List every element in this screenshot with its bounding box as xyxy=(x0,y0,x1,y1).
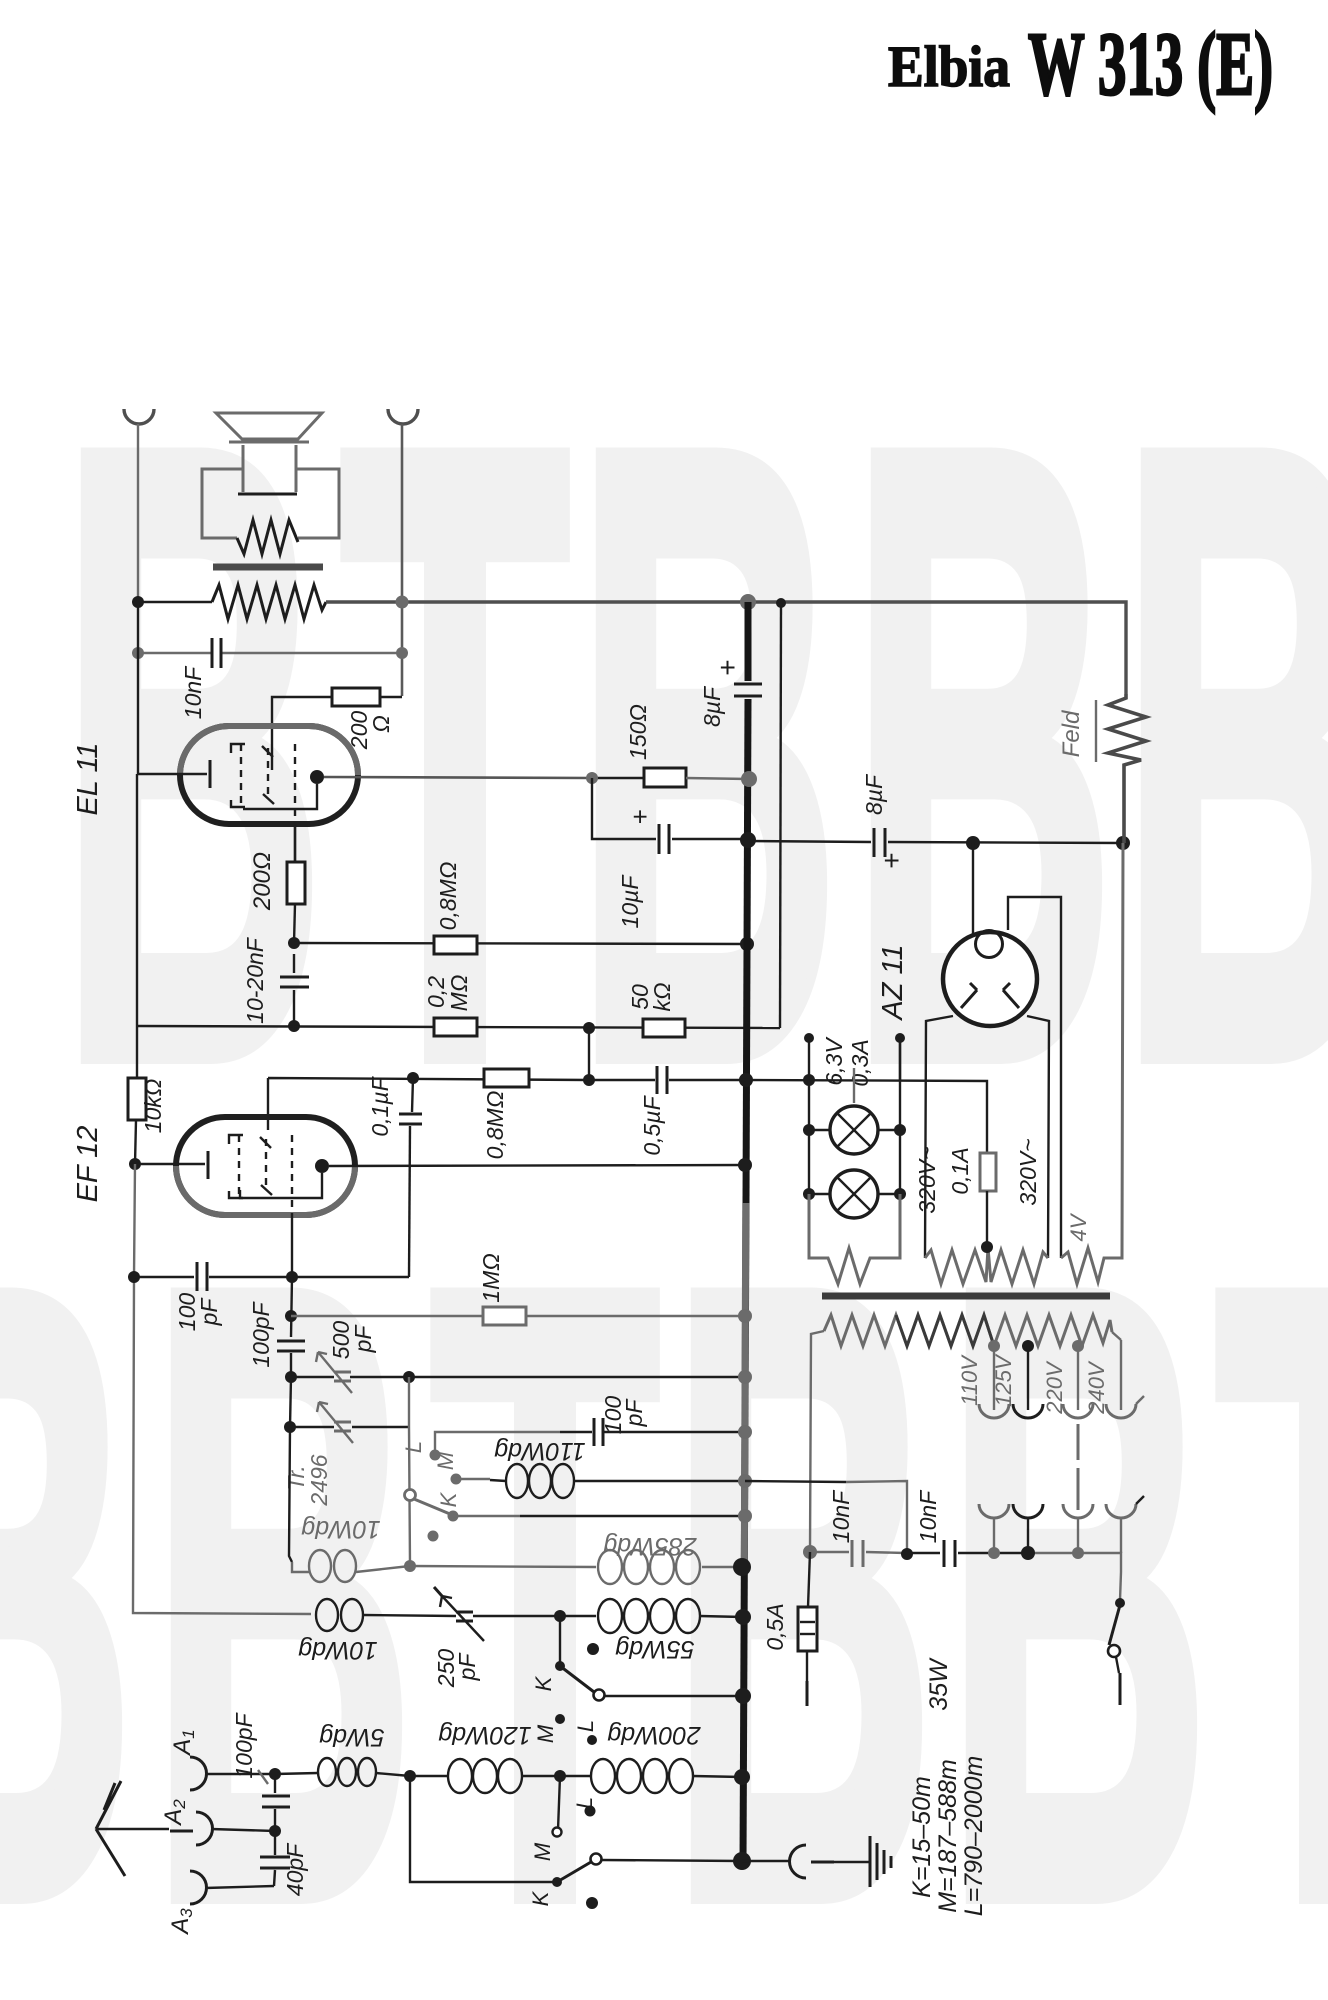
AZ11 plates xyxy=(961,983,1019,1008)
capacitor 10nF mains 1 xyxy=(852,1540,863,1567)
wire row y602 left xyxy=(138,601,212,603)
tube EL11 envelope xyxy=(180,726,358,824)
svg-text:Elbia: Elbia xyxy=(888,34,1010,99)
wire 250pF to 55Wdg xyxy=(473,1615,596,1617)
speaker magnet bar xyxy=(213,564,323,571)
terminal stub 6.3V left xyxy=(803,1033,815,1086)
svg-text:B: B xyxy=(1120,268,1328,1240)
node 150ohm bus xyxy=(741,771,757,787)
coil 5Wdg xyxy=(275,1758,410,1786)
node x781 top xyxy=(776,598,786,608)
wire 0.8M row xyxy=(294,943,747,944)
wire 200ohm to node xyxy=(294,904,295,943)
svg-text:0,3A: 0,3A xyxy=(847,1039,873,1086)
switch K lower xyxy=(528,1854,602,1907)
svg-text:200Wdg: 200Wdg xyxy=(607,1721,701,1749)
wire 285Wdg row xyxy=(410,1566,742,1567)
capacitor 40pF xyxy=(260,1831,290,1886)
wire grid resistor right up xyxy=(380,696,402,698)
wire 0.2M row xyxy=(137,1026,780,1028)
node bus bottom xyxy=(733,1852,751,1870)
wire right hook down xyxy=(401,424,404,696)
svg-text:10Wdg: 10Wdg xyxy=(301,1515,380,1543)
node 110V stub row xyxy=(988,1547,1000,1559)
svg-text:B: B xyxy=(0,1108,135,2000)
svg-text:2496: 2496 xyxy=(306,1454,332,1506)
loudspeaker xyxy=(202,413,339,538)
EL11 grid g1 dashed xyxy=(231,744,245,807)
svg-text:6,3V: 6,3V xyxy=(821,1036,847,1086)
socket stubs row2 xyxy=(994,1518,1121,1553)
plug pin A2 xyxy=(170,1830,193,1833)
wire EF12 cathode xyxy=(135,1163,205,1165)
wire 10nF row xyxy=(810,1552,1121,1572)
mains pin left xyxy=(806,1681,809,1706)
svg-text:10Wdg: 10Wdg xyxy=(298,1636,377,1664)
node 500pF bus xyxy=(738,1370,752,1384)
svg-text:W 313 (E): W 313 (E) xyxy=(1028,15,1273,114)
svg-text:55Wdg: 55Wdg xyxy=(615,1635,694,1663)
svg-text:35W: 35W xyxy=(925,1657,953,1711)
svg-text:pF: pF xyxy=(350,1324,376,1354)
earth socket xyxy=(790,1845,806,1878)
node 10nF mid xyxy=(901,1548,913,1560)
watermark band 1 xyxy=(60,268,1328,1240)
svg-text:pF: pF xyxy=(621,1398,647,1428)
node 150ohm left xyxy=(586,772,598,784)
node 500pF row left xyxy=(285,1371,297,1383)
wire M stub lower xyxy=(558,1776,560,1830)
label 50k xyxy=(627,983,675,1012)
contact dot K lower idle xyxy=(586,1897,598,1909)
label 0.2M xyxy=(423,975,472,1012)
contact M lower xyxy=(530,1828,562,1862)
svg-text:K: K xyxy=(528,1890,553,1906)
node 100pF row bus xyxy=(738,1425,752,1439)
node 55Wdg left xyxy=(554,1610,566,1622)
variable capacitor 250pF xyxy=(434,1587,484,1641)
label 500pF xyxy=(328,1321,376,1360)
contact dot idle xyxy=(428,1531,439,1542)
svg-text:40pF: 40pF xyxy=(282,1842,308,1896)
wire stub xyxy=(588,1028,590,1080)
wire x292 to trimmer2 xyxy=(290,1377,291,1427)
label 100pF bandset xyxy=(600,1396,647,1435)
contact L upper xyxy=(401,1441,441,1461)
EL11 anode pin xyxy=(310,770,324,784)
socket arcs row2 xyxy=(979,1496,1144,1518)
wire 1M row xyxy=(291,1315,745,1317)
wire bus to earth socket xyxy=(742,1860,790,1862)
node bus top xyxy=(740,594,756,610)
capacitor 0.1uF xyxy=(399,1078,422,1277)
wire grid resistor to tube xyxy=(272,697,332,770)
EF12 cathode bar xyxy=(207,1151,210,1179)
coil 10Wdg upper xyxy=(292,1550,410,1582)
contact dot 55Wdg idle xyxy=(587,1643,599,1655)
wire lamp rail right xyxy=(899,1038,901,1196)
winding mains primary xyxy=(824,1315,1112,1346)
node 0.8M bus xyxy=(740,937,754,951)
label wave ranges xyxy=(908,1756,988,1917)
EF12 grid g1 dashed xyxy=(229,1135,243,1198)
wire K mid row to bus xyxy=(605,1695,743,1697)
tap 240V xyxy=(1084,1332,1144,1418)
terminal A1 xyxy=(190,1757,275,1790)
capacitor 100pF tank xyxy=(277,1341,305,1377)
wire left rail EF12 down xyxy=(133,1164,311,1614)
bus main vertical xyxy=(743,602,748,1862)
node speaker row left xyxy=(132,596,144,608)
svg-text:M: M xyxy=(530,1842,555,1861)
resistor 150 Ohm xyxy=(644,768,686,787)
node 1M row xyxy=(285,1310,297,1322)
svg-text:100pF: 100pF xyxy=(248,1300,274,1367)
node EF12 cathode xyxy=(129,1158,141,1170)
tap 125V xyxy=(991,1340,1043,1418)
terminal A3 xyxy=(190,1871,274,1904)
svg-text:EF 12: EF 12 xyxy=(72,1126,104,1203)
svg-text:4V: 4V xyxy=(1066,1212,1091,1241)
svg-text:B: B xyxy=(575,268,840,1240)
wire x409 riser xyxy=(409,1377,410,1565)
contact L mid xyxy=(573,1720,598,1745)
wire screen row y1078 xyxy=(268,1078,589,1130)
transformer core bar xyxy=(822,1293,1110,1300)
svg-text:L: L xyxy=(572,1797,597,1809)
coil 120Wdg xyxy=(410,1759,560,1793)
svg-text:10µF: 10µF xyxy=(617,874,643,929)
wire x292 down xyxy=(291,1277,292,1337)
node 8uF row az11 xyxy=(966,836,980,850)
svg-text:Ω: Ω xyxy=(368,715,394,733)
capacitor 100pF bandset xyxy=(594,1418,603,1446)
svg-text:EL 11: EL 11 xyxy=(72,742,104,815)
terminal hook right xyxy=(388,409,418,424)
node K row bus xyxy=(738,1509,752,1523)
wire tube to 200ohm xyxy=(294,824,296,862)
antenna symbol xyxy=(96,1781,169,1876)
svg-text:T: T xyxy=(1215,1108,1328,2000)
wire 500pF row xyxy=(291,1376,745,1378)
wire K loop lower xyxy=(410,1776,556,1882)
EL11 grid g2 dashed with ties xyxy=(262,746,274,804)
node grid rail x292 xyxy=(286,1271,298,1283)
svg-text:5Wdg: 5Wdg xyxy=(319,1723,384,1751)
node EF12 anode bus xyxy=(738,1158,752,1172)
resistor 0.8M no1 xyxy=(434,936,477,954)
svg-text:110V: 110V xyxy=(957,1354,982,1406)
resistor output zigzag xyxy=(212,585,326,619)
node grid leak row left cap xyxy=(288,1020,300,1032)
node stub top xyxy=(583,1022,595,1034)
EF12 anode pin xyxy=(315,1159,329,1173)
capacitor 0.5uF xyxy=(589,1064,746,1097)
svg-text:L: L xyxy=(573,1720,598,1732)
contact M upper xyxy=(433,1451,462,1484)
wire row y602 right to rail corner xyxy=(326,602,1126,694)
capacitor 8uF bus xyxy=(734,684,762,696)
wire x292 to coil10 upper xyxy=(289,1427,292,1562)
svg-text:110Wdg: 110Wdg xyxy=(494,1437,585,1465)
capacitor 8uF right xyxy=(874,828,885,857)
svg-text:1MΩ: 1MΩ xyxy=(478,1253,504,1302)
winding 320V xyxy=(925,1248,1048,1284)
resistor 0.2M xyxy=(434,1018,477,1036)
svg-text:10-20nF: 10-20nF xyxy=(242,936,268,1024)
node 200Wdg left xyxy=(554,1770,566,1782)
EF12 anode bracket xyxy=(240,1173,322,1198)
svg-text:MΩ: MΩ xyxy=(446,975,472,1012)
wire 10nF row xyxy=(138,652,402,654)
svg-text:M=187–588m: M=187–588m xyxy=(934,1759,962,1913)
resistor Feld field coil xyxy=(1108,694,1146,843)
EF12 grid g2 dashed with ties xyxy=(260,1137,272,1195)
node 10nF right xyxy=(396,647,408,659)
svg-text:10nF: 10nF xyxy=(915,1489,941,1543)
switch K upper xyxy=(405,1490,462,1522)
node speaker row right xyxy=(396,596,409,609)
label 100pF cathode xyxy=(174,1293,222,1332)
EL11 anode bracket xyxy=(243,784,317,809)
svg-text:+: + xyxy=(876,853,907,869)
svg-text:8µF: 8µF xyxy=(699,685,725,727)
coil 55Wdg xyxy=(598,1599,743,1633)
title Elbia W 313 (E) xyxy=(888,15,1273,114)
node 0.8M row left xyxy=(288,937,300,949)
node 500pF row mid xyxy=(403,1371,415,1383)
label Tr 2496 xyxy=(283,1454,332,1506)
terminal stub 6.3V right xyxy=(895,1033,905,1080)
contact M mid xyxy=(533,1714,565,1743)
winding 4V xyxy=(1061,843,1123,1284)
capacitor 100pF cathode xyxy=(134,1262,292,1291)
svg-text:kΩ: kΩ xyxy=(649,983,675,1012)
svg-text:+: + xyxy=(625,809,655,824)
wire 10uF branch xyxy=(592,778,749,839)
coil 110Wdg xyxy=(456,1464,745,1498)
svg-text:K: K xyxy=(531,1675,556,1691)
node 110Wdg bus xyxy=(738,1474,752,1488)
resistor 200 Ohm cathode xyxy=(287,862,305,904)
wire left rail top xyxy=(137,424,139,602)
wire AZ11 plate right down xyxy=(1027,1016,1049,1258)
svg-text:0,1A: 0,1A xyxy=(947,1147,973,1194)
watermark band 2 xyxy=(0,1108,1328,2000)
coil 285Wdg xyxy=(598,1550,700,1584)
node 100pF cath left xyxy=(128,1271,140,1283)
resistor 10k xyxy=(128,1078,146,1120)
wire pin to ground xyxy=(834,1861,869,1863)
svg-text:L: L xyxy=(401,1441,426,1453)
trimmer 500pF xyxy=(316,1352,352,1393)
switch mains xyxy=(1108,1572,1125,1673)
lamp 1 xyxy=(803,1106,906,1154)
svg-text:M: M xyxy=(533,1724,558,1743)
terminal A2 xyxy=(196,1812,275,1845)
tube AZ11 xyxy=(943,931,1037,1027)
wire AZ11 plate left down xyxy=(925,1016,953,1258)
tap 220V xyxy=(1042,1340,1093,1418)
wire grid rail to 0.1uF corner xyxy=(292,1276,409,1278)
svg-text:M: M xyxy=(433,1451,458,1470)
resistor 1M xyxy=(483,1307,526,1325)
node 120Wdg left xyxy=(404,1770,416,1782)
svg-text:pF: pF xyxy=(196,1297,222,1327)
node heater bus xyxy=(739,1073,753,1087)
speaker voice-coil zigzag xyxy=(237,520,298,554)
wire trimmer2 row xyxy=(290,1426,409,1428)
wire AZ11 anode loop xyxy=(1008,897,1061,1258)
wire K row to bus xyxy=(453,1515,745,1517)
wire primary left riser xyxy=(810,1331,824,1552)
contact L lower xyxy=(572,1797,597,1817)
svg-text:+: + xyxy=(712,660,743,676)
node 220V stub row xyxy=(1072,1547,1084,1559)
svg-text:0,8MΩ: 0,8MΩ xyxy=(482,1091,508,1160)
svg-text:0,1µF: 0,1µF xyxy=(367,1075,393,1136)
svg-text:K: K xyxy=(436,1491,461,1507)
svg-text:10kΩ: 10kΩ xyxy=(140,1079,166,1134)
capacitor 10-20nF xyxy=(280,954,309,1026)
svg-text:220V: 220V xyxy=(1042,1360,1067,1415)
ground symbol xyxy=(870,1836,891,1887)
label 6.3V 0.3A xyxy=(821,1036,873,1103)
node 10nF left xyxy=(132,647,144,659)
tap 110V xyxy=(957,1340,1009,1418)
EL11 grid g3 dashed to screen lead xyxy=(294,744,296,862)
wire heater 6.3V row xyxy=(746,1080,987,1153)
capacitor 10nF xyxy=(212,636,221,670)
earth plug pin xyxy=(811,1861,834,1864)
svg-text:8µF: 8µF xyxy=(861,773,887,815)
wire 10k to cathode node xyxy=(135,1120,136,1164)
label 250pF xyxy=(433,1649,480,1689)
node stub bottom xyxy=(583,1074,595,1086)
winding lamp secondary xyxy=(809,1194,900,1284)
wire chassis link right of bus xyxy=(745,1481,846,1482)
trimmer Tr 2496 xyxy=(317,1402,353,1443)
lamp 2 xyxy=(803,1170,906,1218)
node K mid bus xyxy=(735,1688,751,1704)
fuse 0.1A xyxy=(980,1153,996,1247)
svg-text:K=15–50m: K=15–50m xyxy=(908,1776,936,1898)
EF12 grid g3 dashed to lead below xyxy=(291,1135,293,1277)
resistor 50k xyxy=(643,1019,685,1037)
svg-text:240V: 240V xyxy=(1084,1360,1109,1415)
node bus 10uF row xyxy=(740,832,756,848)
wire 10Wdg to 250pF xyxy=(363,1615,456,1616)
svg-text:125V: 125V xyxy=(991,1353,1016,1407)
capacitor 10uF xyxy=(659,824,669,854)
wire AZ11 cathode up xyxy=(972,843,974,934)
svg-text:AZ 11: AZ 11 xyxy=(877,944,909,1021)
wire EF12 anode row xyxy=(329,1165,745,1166)
svg-text:Feld: Feld xyxy=(1058,710,1085,757)
tube EF12 envelope xyxy=(176,1117,355,1215)
svg-text:120Wdg: 120Wdg xyxy=(438,1721,531,1749)
winding primary dark overlay xyxy=(896,1315,994,1346)
node 0.1uF top xyxy=(407,1072,419,1084)
svg-text:320V~: 320V~ xyxy=(914,1146,940,1213)
node trimmer2 left xyxy=(284,1421,296,1433)
node x409 tank bottom xyxy=(404,1560,416,1572)
wire L contact to 100pF row xyxy=(435,1432,560,1455)
label 200 Ohm grid xyxy=(346,711,394,751)
svg-text:10nF: 10nF xyxy=(828,1489,854,1543)
node 55Wdg bus xyxy=(735,1609,751,1625)
svg-text:320V~: 320V~ xyxy=(1015,1138,1041,1205)
svg-text:150Ω: 150Ω xyxy=(625,704,651,760)
wire earth row xyxy=(602,1860,741,1861)
capacitor 10nF mains 2 xyxy=(944,1540,955,1567)
wire lamp rail left xyxy=(808,1080,810,1196)
svg-text:285Wdg: 285Wdg xyxy=(603,1532,697,1560)
terminal hook left xyxy=(124,409,154,424)
fuse 0.5A xyxy=(798,1552,817,1681)
resistor 0.8M no2 xyxy=(484,1069,529,1087)
svg-text:B: B xyxy=(670,1108,935,2000)
svg-text:100pF: 100pF xyxy=(231,1711,257,1778)
EL11 cathode bar xyxy=(209,760,212,788)
node 8uF row right xyxy=(1116,836,1130,850)
label Feld underlined xyxy=(1058,700,1096,762)
svg-text:10nF: 10nF xyxy=(180,665,206,719)
node 10nF left xyxy=(803,1545,817,1559)
svg-text:0,8MΩ: 0,8MΩ xyxy=(435,862,461,931)
svg-text:0,5µF: 0,5µF xyxy=(639,1094,665,1155)
wire x781 riser xyxy=(780,603,781,1028)
node 320V centre tap xyxy=(981,1241,993,1253)
svg-text:pF: pF xyxy=(454,1652,480,1682)
node 125V stub row xyxy=(1021,1546,1035,1560)
wire 150ohm row xyxy=(592,778,748,779)
node 285Wdg bus xyxy=(733,1558,751,1576)
node 1M bus xyxy=(738,1309,752,1323)
capacitor 100pF antenna xyxy=(258,1768,290,1837)
node 200Wdg bus xyxy=(734,1769,750,1785)
coil 200Wdg xyxy=(560,1759,742,1793)
wire 8uF right row xyxy=(748,841,1123,843)
switch K mid xyxy=(531,1616,605,1701)
wire left rail EL11 to EF12 xyxy=(137,602,139,774)
wire EL11 anode row xyxy=(324,777,592,778)
wire EL11 cathode xyxy=(138,773,207,775)
voltage selector link 220V xyxy=(1077,1424,1080,1510)
svg-text:0,5A: 0,5A xyxy=(762,1603,788,1650)
svg-text:L=790–2000m: L=790–2000m xyxy=(960,1756,988,1917)
svg-text:200Ω: 200Ω xyxy=(249,852,276,911)
mains pin right xyxy=(1119,1673,1122,1705)
resistor 200 Ohm grid xyxy=(332,688,380,706)
coil 10Wdg lower xyxy=(316,1599,363,1631)
